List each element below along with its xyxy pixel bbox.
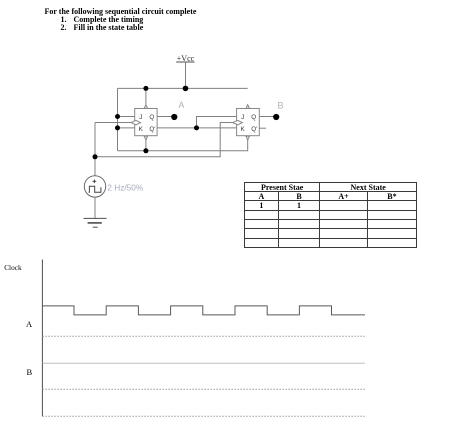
svg-text:B: B xyxy=(278,101,284,111)
wire clock to FF1 xyxy=(95,122,132,124)
svg-text:Q: Q xyxy=(149,114,154,121)
wire source to ground xyxy=(94,197,96,219)
label B (timing) xyxy=(27,367,33,377)
flip-flop U1 xyxy=(131,105,157,140)
node K junction xyxy=(115,125,120,130)
timing axis xyxy=(41,260,43,417)
node J junction xyxy=(115,114,120,119)
wire Vcc rail xyxy=(118,87,248,89)
flip-flop U2 xyxy=(233,105,260,140)
wire Q2 to B xyxy=(259,116,275,118)
svg-text:J: J xyxy=(139,114,142,121)
node probe A xyxy=(171,114,177,120)
power +Vcc xyxy=(176,54,194,63)
wire FF1 K input xyxy=(118,127,135,129)
ground xyxy=(84,218,107,227)
wire clock riser xyxy=(94,123,96,176)
heading text xyxy=(45,7,197,16)
wire FF1 J input xyxy=(118,116,135,118)
wire clear rail xyxy=(118,140,248,151)
signal B low gridline xyxy=(42,415,364,417)
wire Vcc stem xyxy=(185,62,187,88)
wire Q1 to A xyxy=(157,116,174,118)
wire left Vcc drop xyxy=(117,88,119,150)
clock waveform xyxy=(42,306,365,315)
label Clock xyxy=(4,263,21,272)
node clear junction xyxy=(143,148,148,153)
svg-text:Q': Q' xyxy=(149,126,155,133)
svg-text:2 Hz/50%: 2 Hz/50% xyxy=(107,182,144,192)
node probe B xyxy=(273,114,279,120)
node Vcc junction xyxy=(183,86,189,92)
state table xyxy=(244,182,417,249)
signal A high gridline xyxy=(42,335,364,337)
svg-text:Q: Q xyxy=(251,114,256,121)
wire FF1 preset stub xyxy=(145,88,147,104)
wire Q2' stub xyxy=(259,127,266,129)
wire clock to FF2 xyxy=(95,123,233,157)
svg-text:A: A xyxy=(178,100,184,110)
signal B high gridline xyxy=(42,388,364,390)
label A (timing) xyxy=(26,319,32,329)
node preset junction xyxy=(143,86,148,91)
wire FF1 clear stub xyxy=(145,140,147,151)
node clock junction xyxy=(93,154,98,159)
svg-text:J: J xyxy=(241,114,244,121)
node J2 branch junction xyxy=(194,125,199,130)
wire Q1' to FF2 K xyxy=(157,127,236,129)
wire branch to FF2 J xyxy=(197,117,237,128)
svg-text:Q': Q' xyxy=(251,126,257,133)
signal A low gridline xyxy=(42,362,364,364)
clock source V1 xyxy=(84,176,105,197)
